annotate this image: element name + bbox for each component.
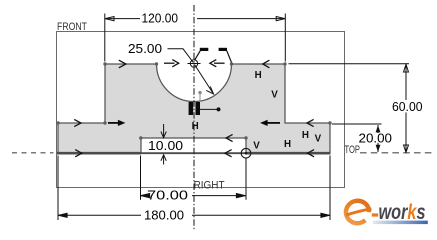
svg-text:H: H xyxy=(255,70,262,81)
svg-text:V: V xyxy=(271,89,278,100)
svg-text:10.00: 10.00 xyxy=(148,139,183,153)
svg-text:120.00: 120.00 xyxy=(142,11,179,25)
svg-text:RIGHT: RIGHT xyxy=(194,180,225,192)
svg-text:TOP: TOP xyxy=(345,144,361,156)
svg-text:180.00: 180.00 xyxy=(144,208,184,222)
svg-text:20.00: 20.00 xyxy=(359,131,393,145)
svg-text:H: H xyxy=(284,139,291,150)
svg-text:25.00: 25.00 xyxy=(128,42,162,56)
svg-text:H: H xyxy=(302,130,309,141)
svg-text:works: works xyxy=(379,201,426,224)
svg-text:FRONT: FRONT xyxy=(57,21,87,33)
svg-text:V: V xyxy=(253,141,260,152)
svg-text:H: H xyxy=(192,121,199,132)
svg-text:60.00: 60.00 xyxy=(392,100,423,114)
svg-text:V: V xyxy=(315,134,322,145)
svg-text:70.00: 70.00 xyxy=(147,189,188,203)
